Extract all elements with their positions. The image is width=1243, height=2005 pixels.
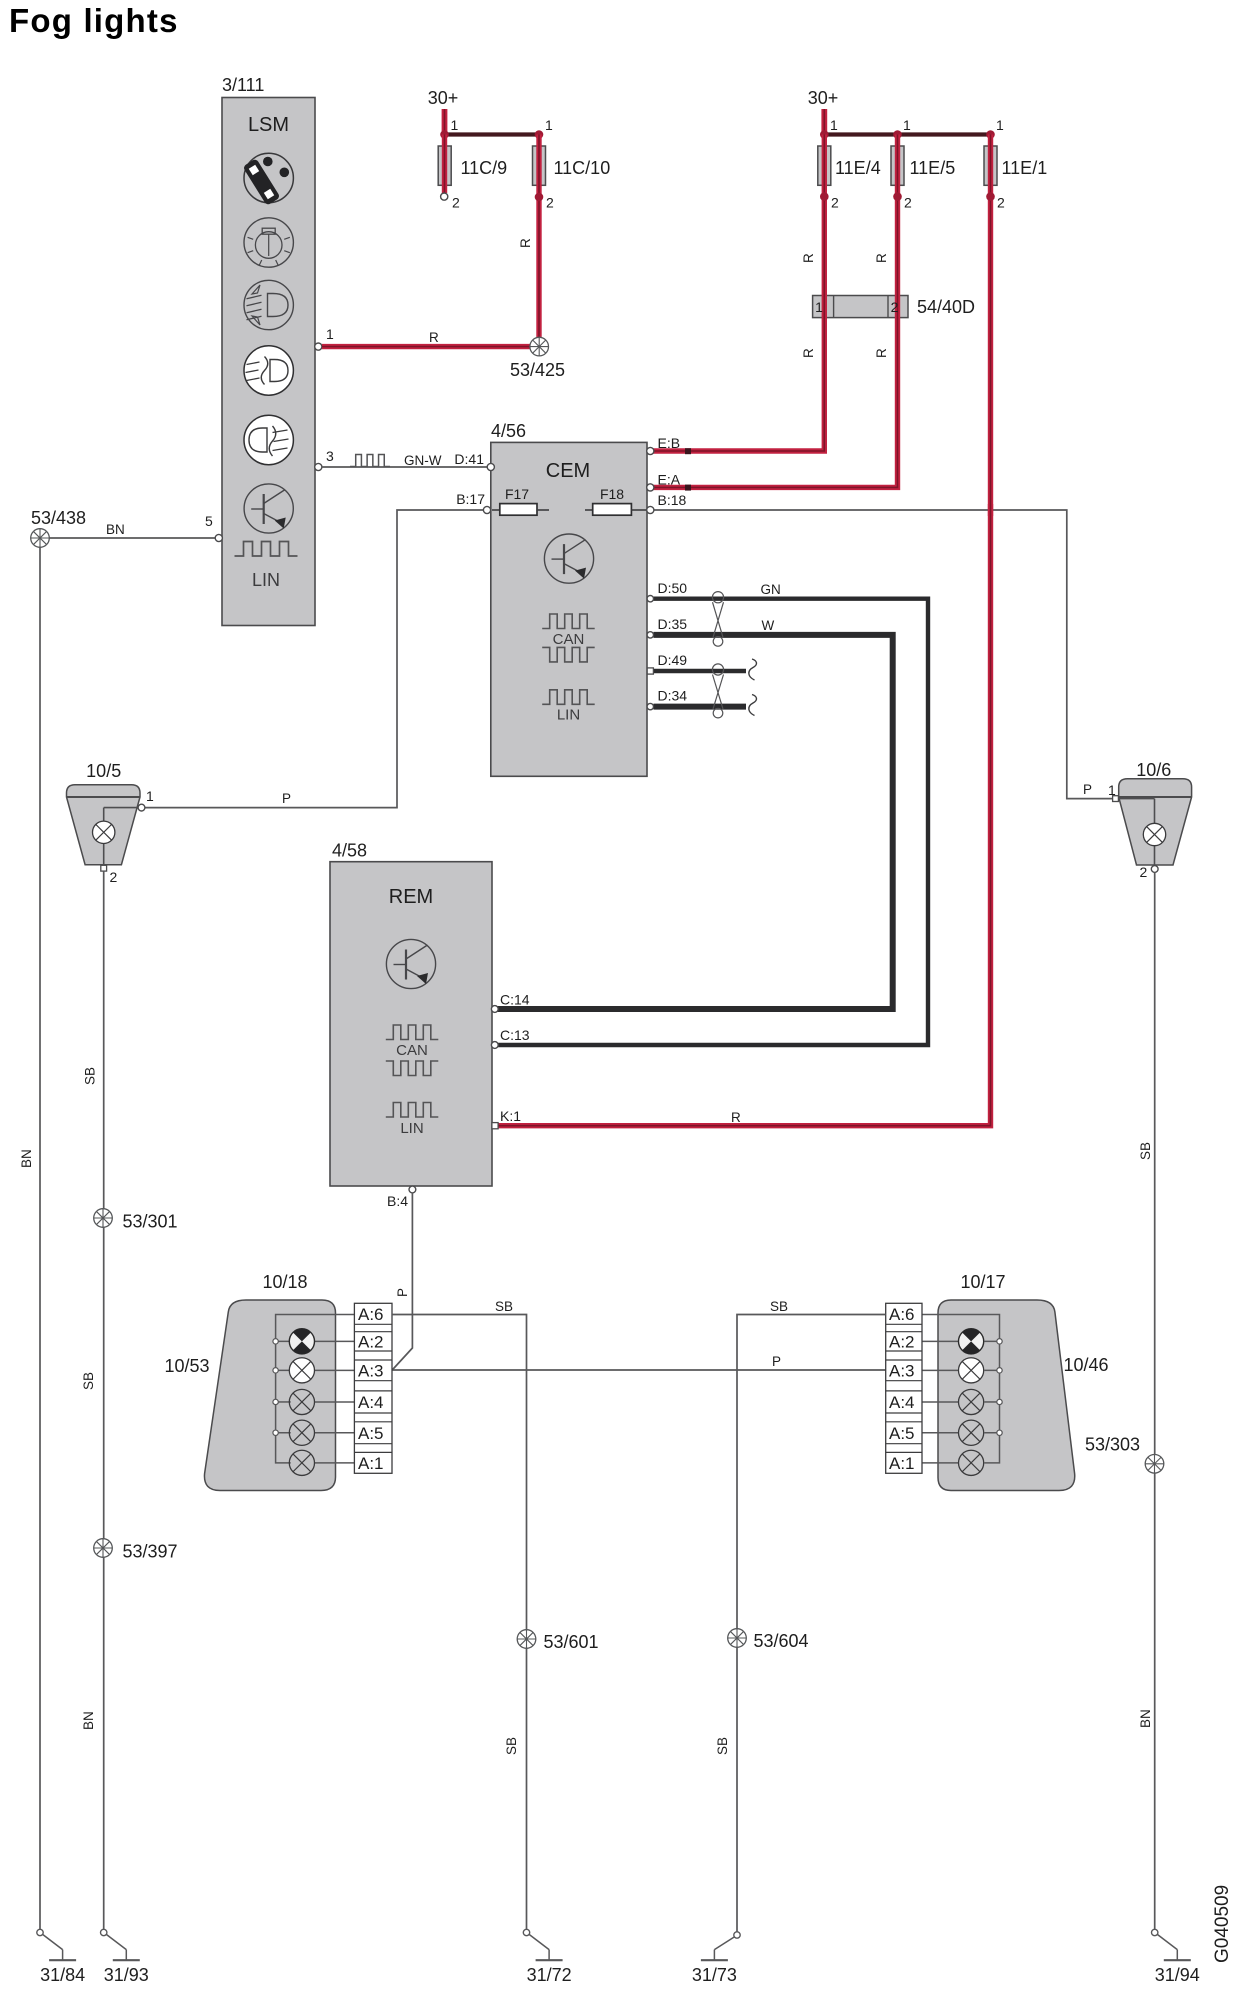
REM icon: transistor driver — [386, 939, 435, 988]
svg-text:SB: SB — [715, 1737, 730, 1755]
svg-text:2: 2 — [891, 299, 899, 315]
wire: CEM D:34 CAN stub — [654, 695, 757, 716]
wire P: CEM B:18 right and down to fog lamp 10/6 — [651, 510, 1112, 799]
connector mark on E:B wire — [685, 448, 691, 454]
red wire R: LSM pin1 to splice 53/425 — [322, 330, 539, 347]
svg-text:2: 2 — [997, 195, 1005, 211]
lamp terminal (A:2) — [997, 1339, 1002, 1344]
svg-text:CEM: CEM — [546, 460, 590, 482]
svg-text:53/425: 53/425 — [510, 360, 565, 380]
svg-text:CAN: CAN — [396, 1042, 428, 1059]
svg-text:2: 2 — [110, 869, 118, 885]
svg-text:54/40D: 54/40D — [917, 297, 975, 317]
CEM CAN interface symbol — [542, 614, 595, 662]
svg-text:10/17: 10/17 — [960, 1272, 1005, 1292]
10/18 connector pin table — [354, 1303, 392, 1473]
svg-text:2: 2 — [904, 195, 912, 211]
svg-text:11E/1: 11E/1 — [1002, 158, 1048, 178]
wire SB: 10/18 A:6 to ground 31/72 — [392, 1299, 527, 1933]
rear electronic module REM 4/58 — [330, 841, 492, 1187]
svg-text:31/72: 31/72 — [527, 1965, 572, 1985]
svg-text:1: 1 — [545, 117, 553, 133]
svg-text:A:3: A:3 — [889, 1362, 915, 1381]
REM CAN interface symbol — [386, 1025, 439, 1076]
red wire: 11E/1 pin2 down to REM K:1 — [497, 135, 991, 1126]
svg-text:53/604: 53/604 — [754, 1631, 809, 1651]
svg-text:D:41: D:41 — [454, 451, 484, 467]
svg-text:SB: SB — [81, 1372, 96, 1390]
svg-text:5: 5 — [205, 513, 213, 529]
10/5 pin 1 — [138, 788, 154, 811]
REM LIN interface symbol — [386, 1103, 439, 1138]
svg-text:R: R — [518, 238, 533, 248]
twisted pair symbol (D:49/D:34) — [712, 664, 723, 675]
svg-text:GN: GN — [761, 582, 781, 597]
svg-text:P: P — [282, 791, 291, 806]
fuse 11E/4 body — [818, 146, 831, 185]
junction pin 1 of 11C/9 — [440, 117, 458, 139]
svg-text:P: P — [1083, 782, 1092, 797]
fuse 11C/9 — [438, 135, 507, 211]
wire: BN from splice 53/438 to LSM pin 5 — [40, 537, 216, 539]
svg-text:10/5: 10/5 — [86, 761, 121, 781]
red wire crossing patch (11E/1 over B:18) — [988, 504, 993, 516]
svg-text:BN: BN — [1138, 1709, 1153, 1728]
LSM icon: instrument lighting — [244, 218, 293, 267]
svg-text:GN-W: GN-W — [404, 453, 442, 468]
LSM pin 1 — [315, 326, 334, 350]
svg-text:REM: REM — [389, 886, 433, 908]
LSM pin 5 — [205, 513, 222, 542]
lamp terminal (A:3) — [273, 1368, 278, 1373]
svg-text:A:4: A:4 — [889, 1393, 915, 1412]
svg-text:P: P — [395, 1288, 410, 1297]
svg-text:11C/10: 11C/10 — [554, 158, 611, 178]
LSM pin 3 — [315, 448, 334, 471]
svg-text:C:14: C:14 — [500, 992, 530, 1008]
fuse 11E/5 labels — [874, 158, 955, 358]
lamp terminal (A:5) — [273, 1430, 278, 1435]
ground 31/84 — [37, 1929, 85, 1985]
CEM pin D:35 — [647, 616, 687, 638]
junction pin 1 of 11E/5 — [893, 117, 911, 139]
10/5 pin 2 — [101, 865, 118, 885]
svg-text:SB: SB — [83, 1067, 98, 1085]
30+ bus wire (right group) — [824, 132, 990, 136]
wire P: rear lamp left A:3 to rear lamp right A:3 — [392, 1354, 886, 1370]
svg-text:A:2: A:2 — [889, 1333, 915, 1352]
junction pin 1 of 11E/4 — [820, 117, 838, 139]
svg-text:A:4: A:4 — [358, 1393, 384, 1412]
svg-text:C:13: C:13 — [500, 1027, 530, 1043]
svg-text:D:34: D:34 — [658, 688, 688, 704]
REM pin K:1 — [492, 1108, 521, 1129]
bulb (10/17 A:4) — [959, 1389, 984, 1414]
LSM LIN interface symbol — [235, 542, 298, 591]
svg-text:SB: SB — [1138, 1142, 1153, 1160]
REM pin C:13 — [491, 1027, 529, 1048]
splice 53/601 — [517, 1630, 598, 1652]
wire: lamp to pin A:5 (10/17) — [922, 1432, 959, 1434]
bulb (10/18 A:4) — [289, 1389, 314, 1414]
svg-text:2: 2 — [831, 195, 839, 211]
svg-text:A:6: A:6 — [358, 1305, 384, 1324]
CEM pin B:18 — [647, 492, 687, 514]
svg-text:B:4: B:4 — [387, 1193, 408, 1209]
svg-text:SB: SB — [770, 1299, 788, 1314]
svg-text:D:50: D:50 — [658, 580, 688, 596]
svg-text:A:5: A:5 — [358, 1424, 384, 1443]
svg-text:LSM: LSM — [248, 114, 289, 136]
svg-text:BN: BN — [106, 522, 125, 537]
svg-text:LIN: LIN — [400, 1120, 423, 1137]
wire GN: CEM D:50 to REM C:13 — [497, 582, 928, 1045]
ground 31/94 — [1152, 1929, 1200, 1985]
svg-text:53/438: 53/438 — [31, 508, 86, 528]
svg-text:Fog lights: Fog lights — [9, 2, 179, 39]
ground 31/93 — [101, 1929, 149, 1985]
CEM pin B:17 — [456, 491, 490, 514]
CEM fuse F17 — [492, 486, 549, 515]
LSM icon: rear fog light — [244, 415, 293, 464]
rear lamp cluster 10/18 — [164, 1272, 335, 1491]
connector 54/40D labels — [815, 297, 975, 317]
svg-text:53/601: 53/601 — [544, 1632, 599, 1652]
svg-text:3: 3 — [326, 448, 334, 464]
lamp terminal (A:2) — [273, 1339, 278, 1344]
bulb: rear fog light (10/18 A:3) — [289, 1358, 314, 1383]
10/17 lamp bus wire — [922, 1315, 1000, 1463]
svg-text:CAN: CAN — [553, 631, 585, 648]
twisted pair symbol (D:50/D:35) — [712, 592, 723, 603]
CEM LIN interface symbol — [542, 690, 595, 724]
bulb: tail fog (10/18 A:2, failure-monitored) — [289, 1329, 314, 1354]
svg-text:A:3: A:3 — [358, 1362, 384, 1381]
svg-text:P: P — [772, 1354, 781, 1369]
wire: lamp to pin A:4 (10/18) — [315, 1401, 355, 1403]
CEM pin D:50 — [647, 580, 687, 602]
svg-text:1: 1 — [815, 299, 823, 315]
svg-text:W: W — [762, 618, 775, 633]
splice 53/303 — [1085, 1435, 1164, 1474]
rear lamp cluster 10/17 — [938, 1272, 1109, 1491]
ground 31/72 — [523, 1929, 571, 1985]
30+ feed (left) — [428, 88, 459, 135]
REM pin C:14 — [491, 992, 529, 1013]
CEM icon: transistor driver — [544, 534, 593, 583]
svg-text:2: 2 — [452, 195, 460, 211]
svg-text:E:A: E:A — [658, 472, 681, 488]
svg-text:BN: BN — [81, 1711, 96, 1730]
svg-text:3/111: 3/111 — [222, 75, 264, 95]
svg-text:A:1: A:1 — [358, 1454, 384, 1473]
wire GN-W: LSM pin3 to CEM D:41 — [322, 453, 487, 468]
svg-text:4/56: 4/56 — [491, 421, 526, 441]
splice 53/604 — [728, 1629, 809, 1651]
wire: CEM D:49 CAN stub — [654, 659, 757, 680]
wire P: CEM B:17 left and down to fog lamp 10/5 — [145, 510, 484, 808]
svg-text:31/93: 31/93 — [104, 1965, 149, 1985]
svg-text:A:1: A:1 — [889, 1454, 915, 1473]
connector mark on E:A wire — [685, 485, 691, 491]
svg-text:2: 2 — [1140, 864, 1148, 880]
CEM pin D:49 — [647, 652, 687, 674]
svg-text:4/58: 4/58 — [332, 841, 367, 861]
svg-text:10/53: 10/53 — [164, 1356, 209, 1376]
svg-text:1: 1 — [996, 117, 1004, 133]
wire: lamp to pin A:3 (10/17) — [922, 1369, 959, 1371]
svg-text:R: R — [801, 348, 816, 358]
30+ bus wire (left pair) — [445, 132, 540, 136]
svg-text:1: 1 — [903, 117, 911, 133]
wire: lamp to pin A:2 (10/17) — [922, 1340, 959, 1342]
svg-text:10/18: 10/18 — [262, 1272, 307, 1292]
splice 53/438 — [31, 508, 86, 547]
front fog lamp 10/6 — [1119, 760, 1192, 866]
svg-text:10/6: 10/6 — [1136, 760, 1171, 780]
fuse 11C/10 — [518, 135, 610, 338]
svg-text:LIN: LIN — [557, 707, 580, 724]
svg-text:30+: 30+ — [428, 88, 459, 108]
front fog lamp 10/5 — [67, 761, 141, 868]
svg-text:A:5: A:5 — [889, 1424, 915, 1443]
svg-text:K:1: K:1 — [500, 1108, 521, 1124]
red wire: 11E/5 pin2 down to CEM E:A — [651, 135, 898, 488]
bulb (10/17 A:5) — [959, 1420, 984, 1445]
svg-text:11E/5: 11E/5 — [910, 158, 956, 178]
REM pin B:4 — [387, 1186, 416, 1209]
splice 53/425 — [510, 337, 565, 380]
svg-text:F18: F18 — [600, 486, 624, 502]
red wire: 11E/4 pin2 down to CEM E:B — [651, 135, 825, 452]
svg-text:11E/4: 11E/4 — [835, 158, 881, 178]
bulb (10/18 A:5) — [289, 1420, 314, 1445]
10/18 lamp bus wire — [276, 1315, 355, 1463]
svg-text:53/301: 53/301 — [123, 1212, 178, 1232]
LSM icon: front fog light — [244, 346, 293, 395]
CEM fuse F18 — [585, 486, 646, 515]
CEM pin E:B — [647, 435, 680, 455]
lamp terminal (A:4) — [997, 1399, 1002, 1404]
svg-text:A:2: A:2 — [358, 1333, 384, 1352]
svg-text:G040509: G040509 — [1212, 1885, 1233, 1963]
svg-text:R: R — [429, 330, 439, 345]
svg-text:R: R — [731, 1110, 741, 1125]
svg-text:F17: F17 — [505, 486, 529, 502]
svg-text:1: 1 — [830, 117, 838, 133]
svg-text:D:35: D:35 — [658, 616, 688, 632]
svg-text:53/303: 53/303 — [1085, 1435, 1140, 1455]
junction pin 1 of 11E/1 — [986, 117, 1004, 139]
wire: lamp to pin A:5 (10/18) — [315, 1432, 355, 1434]
CEM pin D:34 — [647, 688, 687, 710]
lamp terminal (A:5) — [997, 1430, 1002, 1435]
svg-text:A:6: A:6 — [889, 1305, 915, 1324]
svg-text:R: R — [874, 348, 889, 358]
bulb: tail fog (10/17 A:2, failure-monitored) — [959, 1329, 984, 1354]
lamp terminal (A:4) — [273, 1399, 278, 1404]
svg-text:1: 1 — [146, 788, 154, 804]
wire P: REM B:4 down to rear lamp A:3 bus — [392, 1193, 412, 1370]
wire: lamp to pin A:1 (10/17) — [922, 1462, 959, 1464]
wire W: CEM D:35 to REM C:14 — [497, 618, 893, 1009]
wire: BN down from 53/438 to ground 31/84 — [39, 547, 41, 1932]
10/6 pin 1 — [1108, 782, 1118, 802]
splice 53/301 — [94, 1209, 178, 1232]
bulb (10/18 A:1) — [289, 1450, 314, 1475]
bulb (10/17 A:1) — [959, 1450, 984, 1475]
wire SB/BN: 10/6 pin2 down to ground 31/94 — [1138, 872, 1155, 1930]
wire SB/BN: 10/5 pin2 down to ground 31/93 — [81, 871, 104, 1932]
junction pin 1 of 11C/10 — [535, 117, 553, 139]
svg-text:31/84: 31/84 — [40, 1965, 85, 1985]
lamp terminal (A:3) — [997, 1368, 1002, 1373]
svg-text:SB: SB — [495, 1299, 513, 1314]
svg-text:1: 1 — [451, 117, 459, 133]
central electronic module CEM 4/56 — [491, 421, 647, 776]
svg-text:LIN: LIN — [252, 570, 280, 590]
svg-text:1: 1 — [326, 326, 334, 342]
svg-text:10/46: 10/46 — [1063, 1355, 1108, 1375]
svg-text:D:49: D:49 — [658, 652, 688, 668]
30+ feed (right) — [808, 88, 839, 135]
wire: lamp to pin A:2 (10/18) — [315, 1340, 355, 1342]
LSM icon: headlight — [244, 280, 293, 329]
10/17 connector pin table — [886, 1303, 922, 1473]
svg-text:R: R — [801, 253, 816, 263]
svg-text:31/73: 31/73 — [692, 1965, 737, 1985]
svg-text:SB: SB — [504, 1737, 519, 1755]
wire SB: 10/17 A:6 to ground 31/73 — [715, 1299, 886, 1935]
svg-text:2: 2 — [546, 195, 554, 211]
svg-text:R: R — [874, 253, 889, 263]
ground 31/73 — [692, 1932, 740, 1985]
LSM icon: transistor driver — [244, 484, 293, 533]
wire: lamp to pin A:4 (10/17) — [922, 1401, 959, 1403]
fuse 11E/1 body — [984, 146, 997, 185]
svg-text:30+: 30+ — [808, 88, 839, 108]
LSM icon: switch knob — [243, 153, 294, 205]
connector 54/40D body — [813, 296, 908, 318]
svg-text:31/94: 31/94 — [1155, 1965, 1200, 1985]
splice 53/397 — [94, 1539, 178, 1562]
fuse 11E/1 labels — [986, 158, 1047, 211]
wire: lamp to pin A:3 (10/18) — [315, 1369, 355, 1371]
CEM pin D:41 — [454, 451, 494, 471]
light switch module LSM 3/111 — [222, 75, 315, 626]
svg-text:BN: BN — [19, 1149, 34, 1168]
svg-text:B:17: B:17 — [456, 491, 485, 507]
svg-text:53/397: 53/397 — [123, 1542, 178, 1562]
svg-text:B:18: B:18 — [658, 492, 687, 508]
CEM pin E:A — [647, 472, 681, 492]
10/6 pin 2 — [1140, 864, 1159, 880]
svg-text:E:B: E:B — [658, 435, 681, 451]
bulb: rear fog light (10/17 A:3) — [959, 1358, 984, 1383]
fuse 11E/4 labels — [801, 158, 881, 358]
svg-text:11C/9: 11C/9 — [461, 158, 508, 178]
fuse 11E/5 body — [891, 146, 904, 185]
wire: lamp to pin A:1 (10/18) — [315, 1462, 355, 1464]
